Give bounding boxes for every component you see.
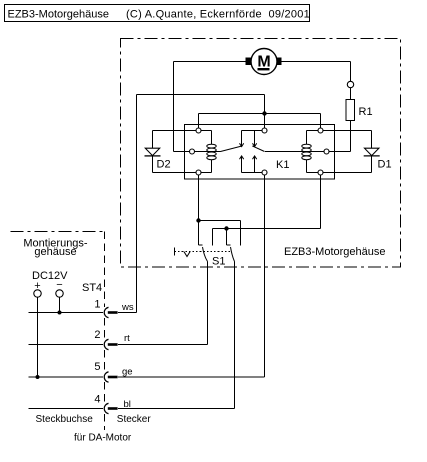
svg-text:D2: D2 (157, 159, 171, 171)
svg-text:EZB3-Motorgehäuse: EZB3-Motorgehäuse (284, 246, 386, 258)
svg-text:rt: rt (124, 333, 130, 344)
svg-text:für DA-Motor: für DA-Motor (74, 433, 132, 444)
svg-text:+: + (34, 280, 40, 292)
svg-text:Steckbuchse: Steckbuchse (36, 414, 94, 425)
svg-text:gehäuse: gehäuse (34, 246, 76, 258)
svg-text:D1: D1 (378, 159, 392, 171)
svg-text:K1: K1 (276, 159, 289, 171)
svg-text:S1: S1 (212, 256, 225, 268)
svg-text:ge: ge (122, 367, 133, 378)
svg-text:1: 1 (94, 299, 100, 311)
svg-text:−: − (56, 279, 62, 291)
svg-text:ws: ws (121, 302, 134, 313)
svg-text:R1: R1 (359, 106, 373, 118)
svg-text:Stecker: Stecker (117, 414, 152, 425)
svg-text:M: M (257, 54, 270, 71)
svg-text:5: 5 (94, 361, 100, 373)
svg-text:4: 4 (94, 394, 100, 406)
svg-text:EZB3-Motorgehäuse: EZB3-Motorgehäuse (8, 9, 110, 21)
svg-text:(C) A.Quante, Eckernförde 09/: (C) A.Quante, Eckernförde 09/2001 (126, 9, 310, 21)
svg-text:bl: bl (124, 399, 131, 410)
svg-text:2: 2 (94, 329, 100, 341)
svg-text:ST4: ST4 (82, 282, 102, 294)
